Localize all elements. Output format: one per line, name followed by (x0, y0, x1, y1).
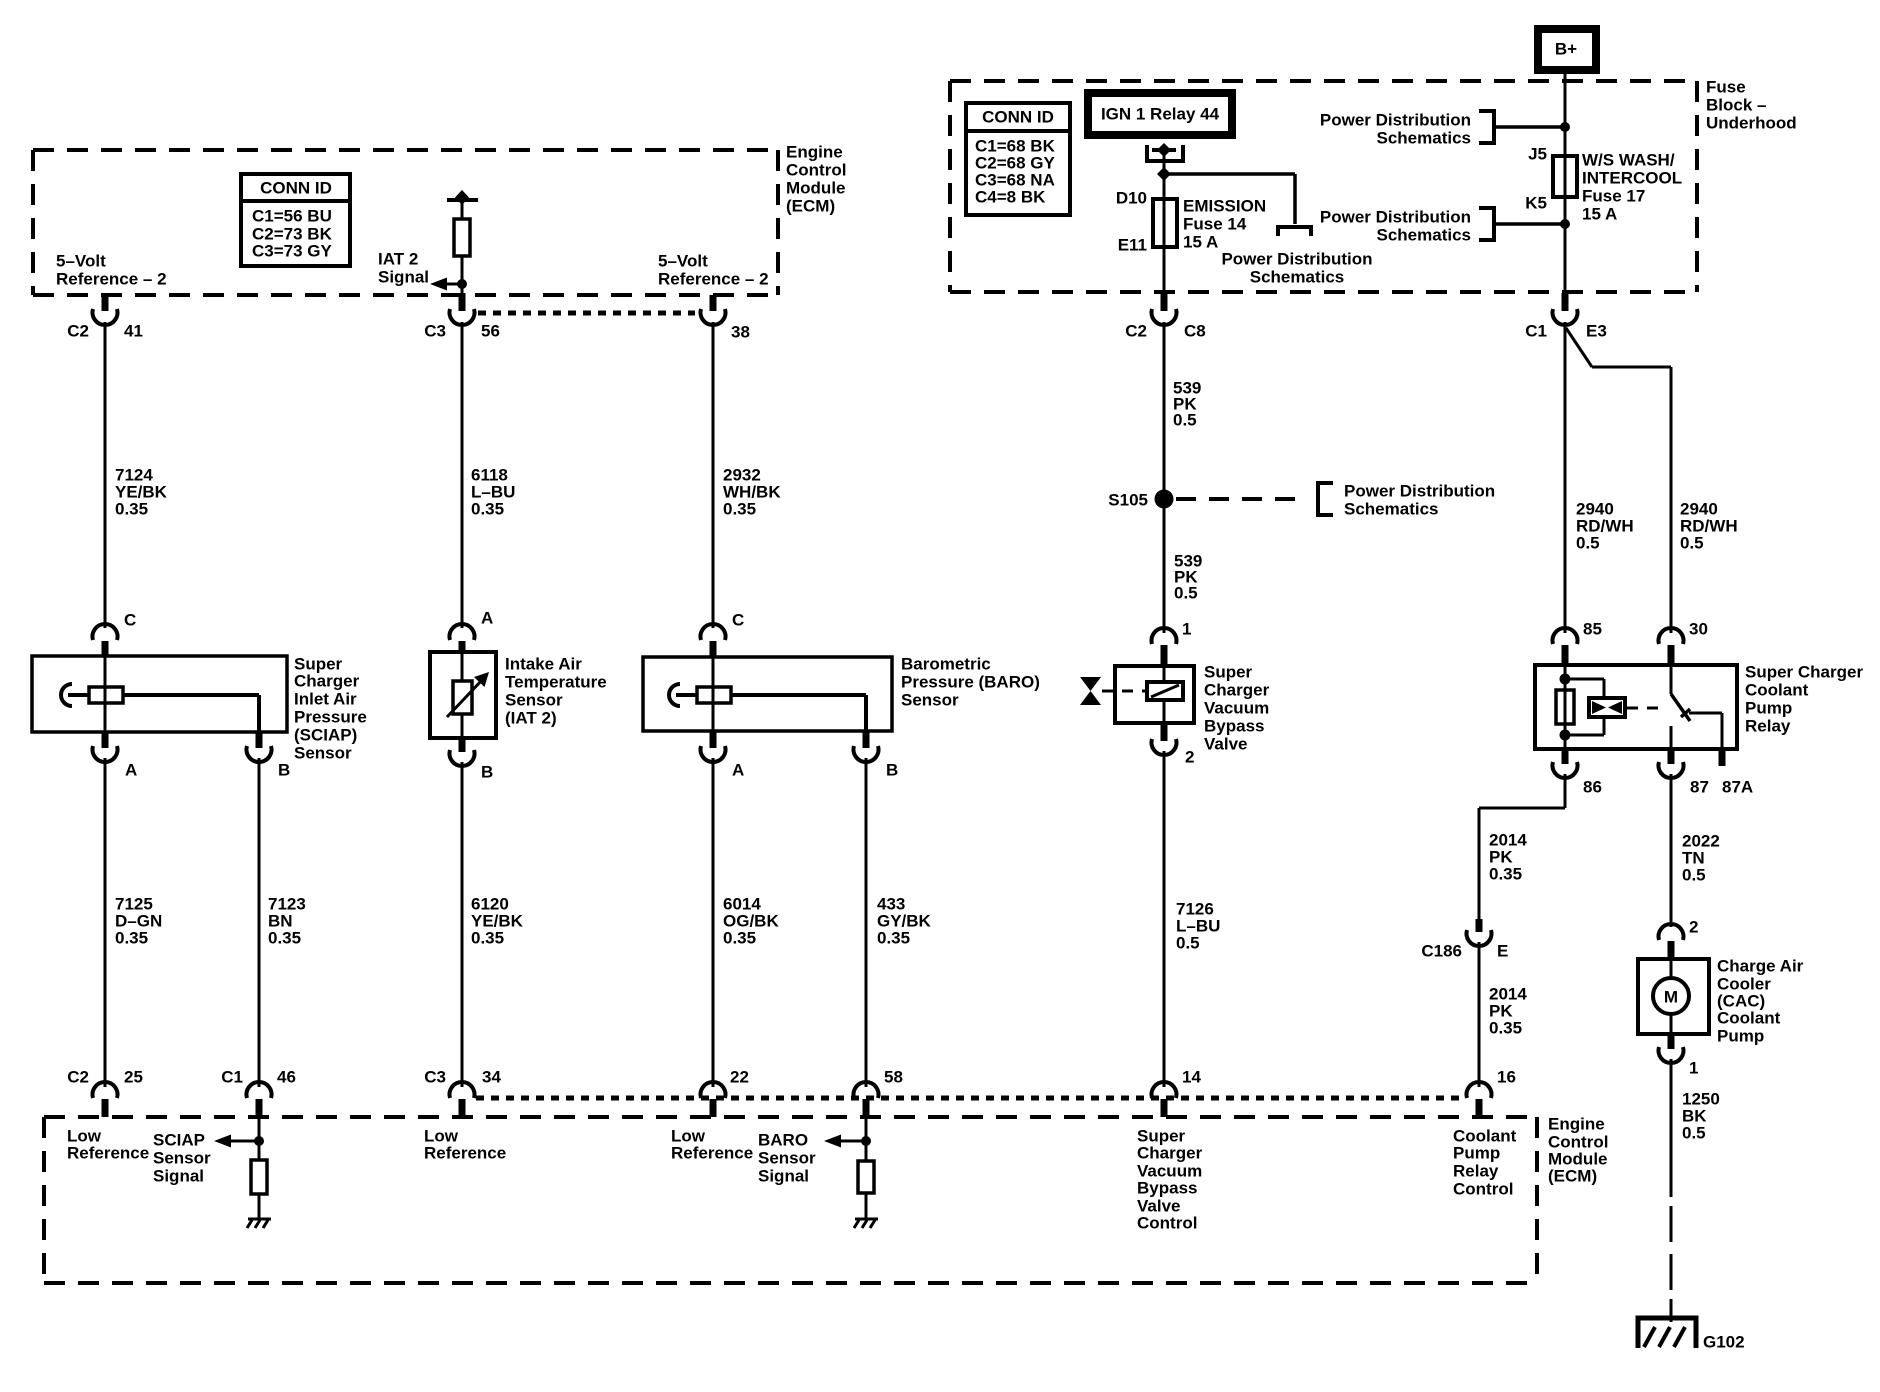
svg-text:S105: S105 (1108, 491, 1148, 510)
wire 7123 BN 0.35 (259, 758, 306, 1087)
svg-text:1: 1 (1689, 1059, 1698, 1078)
svg-text:M: M (1664, 988, 1678, 1007)
svg-text:E: E (1497, 942, 1508, 961)
svg-text:Control: Control (1137, 1214, 1197, 1233)
svg-text:C8: C8 (1184, 322, 1206, 341)
connector pin 87 relay (1659, 749, 1709, 797)
svg-text:34: 34 (482, 1068, 501, 1087)
svg-text:E3: E3 (1586, 322, 1607, 341)
svg-text:0.35: 0.35 (723, 500, 756, 519)
svg-text:C: C (732, 611, 744, 630)
ECM internal IAT2 pull-up resistor (447, 190, 478, 295)
svg-text:Reference – 2: Reference – 2 (56, 270, 167, 289)
connector pin 1 CAC pump (1658, 1034, 1698, 1078)
svg-text:Pressure (BARO): Pressure (BARO) (901, 673, 1040, 692)
svg-text:Module: Module (786, 179, 846, 198)
svg-text:C1: C1 (221, 1068, 243, 1087)
svg-text:Power Distribution: Power Distribution (1221, 250, 1372, 269)
wire 6014 OG/BK 0.35 (713, 758, 779, 1087)
connector pin C SCIAP (93, 611, 137, 658)
connector pin 38 (701, 295, 750, 342)
connector pin A SCIAP (93, 732, 138, 780)
svg-text:0.35: 0.35 (723, 929, 756, 948)
svg-text:Charger: Charger (1137, 1144, 1203, 1163)
motor CAC coolant pump (1638, 957, 1804, 1046)
svg-text:Block –: Block – (1706, 96, 1766, 115)
svg-text:Power Distribution: Power Distribution (1344, 482, 1495, 501)
connector C186 pin E (1421, 919, 1508, 961)
svg-text:Signal: Signal (758, 1167, 809, 1186)
wire 6120 YE/BK 0.35 (462, 762, 524, 1087)
node 5-Volt Reference - 2 right (658, 252, 769, 289)
wire 539 PK 0.5 upper (1164, 322, 1201, 494)
svg-text:16: 16 (1497, 1068, 1516, 1087)
svg-text:Control: Control (1453, 1180, 1513, 1199)
svg-text:D10: D10 (1116, 189, 1147, 208)
connector pin C BARO (701, 611, 745, 658)
svg-text:IGN 1 Relay 44: IGN 1 Relay 44 (1101, 105, 1220, 124)
connector pin 22 (701, 1068, 749, 1118)
svg-text:B: B (886, 761, 898, 780)
svg-text:15 A: 15 A (1183, 233, 1218, 252)
connector pin 86 relay (1553, 749, 1602, 797)
svg-text:Vacuum: Vacuum (1204, 699, 1269, 718)
svg-text:87: 87 (1690, 778, 1709, 797)
wire 2940 RD/WH 0.5 left (1565, 322, 1634, 633)
svg-text:Super: Super (1204, 663, 1253, 682)
svg-text:CONN ID: CONN ID (260, 179, 332, 198)
svg-text:A: A (732, 761, 744, 780)
connector pin B BARO (854, 731, 899, 780)
svg-text:14: 14 (1182, 1068, 1201, 1087)
fuse EMISSION Fuse 14 15A (1116, 174, 1266, 255)
connector C3 pin 34 (424, 1068, 501, 1118)
svg-text:Fuse: Fuse (1706, 78, 1746, 97)
svg-text:Bypass: Bypass (1137, 1179, 1197, 1198)
svg-text:Pump: Pump (1717, 1027, 1764, 1046)
svg-text:2: 2 (1689, 918, 1698, 937)
svg-text:INTERCOOL: INTERCOOL (1582, 169, 1682, 188)
svg-text:(ECM): (ECM) (1548, 1167, 1597, 1186)
connector pin A BARO (701, 731, 745, 780)
ground SCIAP signal reference (247, 1219, 271, 1228)
svg-text:Signal: Signal (153, 1167, 204, 1186)
svg-text:41: 41 (124, 322, 143, 341)
svg-text:87A: 87A (1722, 778, 1753, 797)
svg-text:Bypass: Bypass (1204, 717, 1264, 736)
node Low Reference 2 (424, 1127, 506, 1163)
wire 2940 RD/WH 0.5 right (1566, 328, 1738, 633)
svg-text:E11: E11 (1118, 236, 1147, 255)
svg-text:Fuse 17: Fuse 17 (1582, 187, 1645, 206)
svg-text:Power Distribution: Power Distribution (1320, 111, 1471, 130)
connector pin 58 (854, 1068, 903, 1118)
node Low Reference 3 (671, 1127, 753, 1163)
svg-text:W/S WASH/: W/S WASH/ (1582, 151, 1675, 170)
svg-text:Sensor: Sensor (294, 744, 352, 763)
svg-text:K5: K5 (1525, 194, 1547, 213)
ground BARO signal reference (854, 1219, 878, 1228)
connector C3 pin 56 (424, 293, 500, 341)
svg-text:Barometric: Barometric (901, 655, 991, 674)
connector pin A IAT2 (450, 609, 494, 653)
fuse W/S WASH INTERCOOL Fuse 17 15A (1525, 145, 1682, 224)
svg-text:0.35: 0.35 (115, 929, 148, 948)
svg-text:C2: C2 (67, 1068, 89, 1087)
svg-text:Reference: Reference (67, 1144, 149, 1163)
wire to power distribution tap (1164, 174, 1373, 287)
CONN ID table fuse block (966, 103, 1070, 215)
node IAT 2 Signal arrow (378, 250, 467, 291)
connector C1 pin E3 (1525, 293, 1607, 341)
svg-text:0.5: 0.5 (1680, 534, 1704, 553)
svg-text:C2: C2 (67, 322, 89, 341)
wire 2014 PK 0.35 upper (1479, 774, 1565, 919)
B+ battery feed (1538, 29, 1596, 292)
svg-text:Inlet Air: Inlet Air (294, 690, 357, 709)
connector pin 14 (1152, 1068, 1202, 1118)
svg-text:Schematics: Schematics (1250, 268, 1345, 287)
svg-text:85: 85 (1583, 620, 1602, 639)
connector pin 1 valve (1152, 620, 1192, 667)
svg-text:0.35: 0.35 (115, 500, 148, 519)
svg-text:15 A: 15 A (1582, 205, 1617, 224)
svg-text:A: A (481, 609, 493, 628)
splice S105 (1108, 490, 1173, 510)
connector pin 2 CAC pump (1658, 918, 1698, 960)
svg-text:0.35: 0.35 (1489, 1019, 1522, 1038)
svg-text:Charge Air: Charge Air (1717, 957, 1804, 976)
ECM module box top (33, 143, 846, 296)
svg-text:Sensor: Sensor (758, 1149, 816, 1168)
svg-text:B+: B+ (1555, 40, 1577, 59)
svg-text:C1: C1 (1525, 322, 1547, 341)
svg-text:Control: Control (786, 161, 846, 180)
svg-text:30: 30 (1689, 620, 1708, 639)
node Coolant Pump Relay Control (1453, 1127, 1517, 1199)
svg-text:(SCIAP): (SCIAP) (294, 726, 357, 745)
dotted ECM boundary bottom (476, 1096, 1466, 1101)
svg-text:Underhood: Underhood (1706, 114, 1797, 133)
svg-text:CONN ID: CONN ID (982, 108, 1054, 127)
svg-text:22: 22 (730, 1068, 749, 1087)
svg-text:Charger: Charger (294, 672, 360, 691)
junction S (IGN feed) (1157, 167, 1171, 181)
ECM module box bottom (44, 1115, 1608, 1284)
wire 7126 L-BU 0.5 (1164, 751, 1220, 1087)
connector pin 85 relay (1553, 620, 1602, 666)
svg-text:A: A (125, 761, 137, 780)
svg-text:SCIAP: SCIAP (153, 1131, 205, 1150)
svg-text:46: 46 (277, 1068, 296, 1087)
relay pin 87A stub (1722, 749, 1753, 797)
svg-text:0.5: 0.5 (1682, 866, 1706, 885)
svg-text:Pump: Pump (1745, 699, 1792, 718)
connector pin 30 relay (1659, 620, 1708, 666)
dotted ECM boundary top (478, 311, 695, 316)
Fuse Block - Underhood box (950, 78, 1797, 293)
svg-text:0.5: 0.5 (1682, 1124, 1706, 1143)
power distribution tap 2 (1320, 208, 1570, 245)
wire 6118 L-BU 0.35 (462, 322, 515, 628)
svg-text:Fuse 14: Fuse 14 (1183, 215, 1247, 234)
svg-text:0.5: 0.5 (1173, 411, 1197, 430)
connector C2 pin 41 (67, 293, 143, 341)
wire 7125 D-GN 0.35 (105, 758, 162, 1087)
svg-text:Sensor: Sensor (153, 1149, 211, 1168)
sensor SCIAP (32, 655, 367, 763)
wire 1250 BK 0.5 (1671, 1059, 1720, 1322)
svg-text:C186: C186 (1421, 942, 1462, 961)
svg-text:0.5: 0.5 (1576, 534, 1600, 553)
svg-text:C4=8 BK: C4=8 BK (975, 188, 1046, 207)
svg-text:(ECM): (ECM) (786, 197, 835, 216)
svg-text:Schematics: Schematics (1344, 500, 1439, 519)
svg-text:0.5: 0.5 (1174, 584, 1198, 603)
svg-text:Charger: Charger (1204, 681, 1270, 700)
svg-text:Coolant: Coolant (1717, 1009, 1781, 1028)
connector pin 16 (1466, 1068, 1515, 1118)
svg-text:Signal: Signal (378, 268, 429, 287)
svg-text:Engine: Engine (786, 143, 843, 162)
power distribution tap 1 (1320, 111, 1570, 148)
node BARO Sensor Signal (758, 1117, 874, 1218)
svg-text:Engine: Engine (1548, 1115, 1605, 1134)
wire 2014 PK 0.35 lower (1479, 942, 1527, 1087)
node SCIAP Sensor Signal (153, 1117, 267, 1218)
svg-text:(IAT 2): (IAT 2) (505, 709, 557, 728)
svg-text:Super Charger: Super Charger (1745, 663, 1863, 682)
svg-text:0.35: 0.35 (1489, 865, 1522, 884)
wire 7124 YE/BK 0.35 (105, 322, 168, 628)
connector pin 2 valve (1152, 723, 1195, 767)
node Low Reference 1 (67, 1127, 149, 1163)
svg-text:B: B (481, 763, 493, 782)
svg-text:0.35: 0.35 (268, 929, 301, 948)
wire fuse14 to C2/C8 (1163, 247, 1166, 292)
sensor BARO (643, 655, 1040, 732)
svg-text:G102: G102 (1703, 1333, 1745, 1352)
connector C2 pin C8 (1125, 293, 1205, 341)
svg-text:Reference: Reference (424, 1144, 506, 1163)
svg-text:1: 1 (1182, 620, 1191, 639)
svg-text:Reference – 2: Reference – 2 (658, 270, 769, 289)
CONN ID table U1 (241, 174, 350, 266)
svg-text:Relay: Relay (1745, 717, 1791, 736)
svg-text:58: 58 (884, 1068, 903, 1087)
svg-text:0.35: 0.35 (471, 929, 504, 948)
svg-text:5–Volt: 5–Volt (56, 252, 106, 271)
connector C1 pin 46 (221, 1068, 296, 1118)
svg-text:Schematics: Schematics (1377, 129, 1472, 148)
svg-text:Valve: Valve (1204, 735, 1248, 754)
svg-text:C2: C2 (1125, 322, 1147, 341)
svg-text:Reference: Reference (671, 1144, 753, 1163)
connector pin B IAT2 (450, 738, 494, 782)
svg-text:0.35: 0.35 (877, 929, 910, 948)
svg-text:Pump: Pump (1453, 1144, 1500, 1163)
svg-text:IAT 2: IAT 2 (378, 250, 418, 269)
svg-text:Power Distribution: Power Distribution (1320, 208, 1471, 227)
svg-text:56: 56 (481, 322, 500, 341)
svg-text:C3: C3 (424, 1068, 446, 1087)
svg-text:Pressure: Pressure (294, 708, 367, 727)
svg-text:5–Volt: 5–Volt (658, 252, 708, 271)
svg-text:2: 2 (1185, 748, 1194, 767)
sensor IAT 2 thermistor (430, 652, 607, 738)
wire 433 GY/BK 0.35 (866, 758, 932, 1087)
svg-text:0.5: 0.5 (1176, 934, 1200, 953)
connector pin B SCIAP (247, 732, 291, 780)
svg-text:Schematics: Schematics (1377, 226, 1472, 245)
svg-text:Sensor: Sensor (901, 691, 959, 710)
node 5-Volt Reference - 2 left (56, 252, 167, 289)
dashed reference to Power Distribution (1176, 482, 1495, 519)
svg-text:38: 38 (731, 323, 750, 342)
svg-text:C: C (124, 611, 136, 630)
svg-text:EMISSION: EMISSION (1183, 197, 1266, 216)
relay SC coolant pump relay (1535, 663, 1863, 750)
svg-text:C3=73 GY: C3=73 GY (252, 242, 333, 261)
svg-text:Relay: Relay (1453, 1162, 1499, 1181)
relay IGN 1 Relay 44 label box (1088, 93, 1232, 135)
svg-text:Sensor: Sensor (505, 691, 563, 710)
connector C2 pin 25 (67, 1068, 143, 1118)
svg-text:0.35: 0.35 (471, 500, 504, 519)
wire 2022 TN 0.5 (1671, 774, 1720, 927)
svg-text:C3: C3 (424, 322, 446, 341)
wire 2932 WH/BK 0.35 (713, 322, 781, 628)
svg-text:BARO: BARO (758, 1131, 808, 1150)
ground G102 (1638, 1318, 1745, 1352)
wire 539 PK 0.5 lower (1164, 504, 1202, 633)
svg-text:C1=56 BU: C1=56 BU (252, 207, 332, 226)
svg-text:J5: J5 (1528, 145, 1547, 164)
svg-text:Intake Air: Intake Air (505, 655, 582, 674)
svg-text:Coolant: Coolant (1745, 681, 1809, 700)
svg-text:86: 86 (1583, 778, 1602, 797)
solenoid valve SC vacuum bypass (1080, 663, 1270, 754)
svg-text:25: 25 (124, 1068, 143, 1087)
IGN 1 relay output terminal symbol (1147, 143, 1183, 174)
node SC Vacuum Bypass Valve Control (1137, 1127, 1203, 1233)
svg-text:Temperature: Temperature (505, 673, 607, 692)
svg-text:B: B (278, 761, 290, 780)
